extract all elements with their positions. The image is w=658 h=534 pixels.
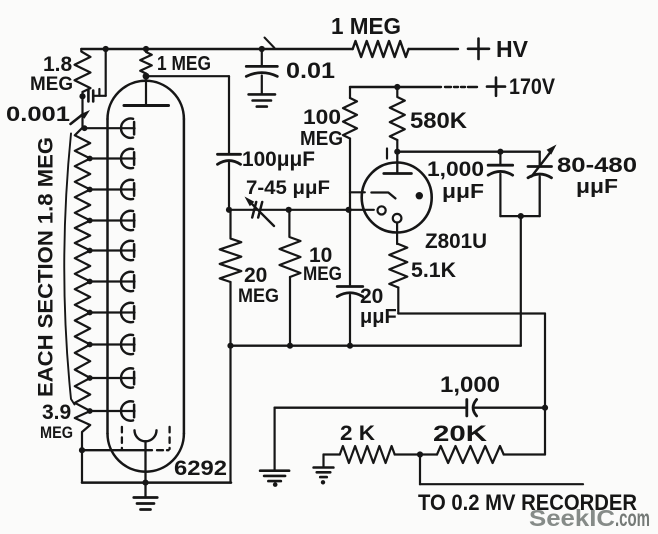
- svg-text:20: 20: [360, 285, 383, 308]
- svg-text:20K: 20K: [433, 421, 487, 446]
- svg-text:0.001: 0.001: [6, 103, 70, 126]
- svg-text:.com: .com: [615, 505, 650, 531]
- svg-text:3.9: 3.9: [42, 401, 71, 424]
- svg-text:MEG: MEG: [30, 74, 73, 95]
- svg-text:1 MEG: 1 MEG: [157, 53, 211, 75]
- svg-text:7-45 μμF: 7-45 μμF: [246, 178, 330, 199]
- svg-text:2 K: 2 K: [340, 422, 375, 445]
- svg-text:580K: 580K: [410, 108, 467, 133]
- svg-text:SeekIC: SeekIC: [529, 505, 615, 531]
- svg-text:Z801U: Z801U: [425, 230, 487, 253]
- svg-text:MEG: MEG: [238, 286, 279, 307]
- svg-text:6292: 6292: [174, 457, 227, 480]
- svg-text:MEG: MEG: [300, 128, 343, 150]
- svg-text:μμF: μμF: [576, 176, 618, 198]
- svg-text:1 MEG: 1 MEG: [331, 13, 401, 39]
- svg-text:EACH SECTION 1.8 MEG: EACH SECTION 1.8 MEG: [35, 137, 58, 397]
- svg-text:MEG: MEG: [303, 264, 342, 285]
- svg-text:MEG: MEG: [40, 423, 73, 442]
- svg-text:100μμF: 100μμF: [242, 148, 315, 171]
- svg-text:1.8: 1.8: [43, 53, 73, 76]
- svg-text:20: 20: [244, 264, 267, 287]
- svg-text:80-480: 80-480: [557, 154, 637, 177]
- svg-text:170V: 170V: [509, 74, 555, 99]
- svg-text:1,000: 1,000: [440, 372, 500, 397]
- svg-text:100: 100: [303, 106, 341, 129]
- svg-text:μμF: μμF: [360, 306, 397, 328]
- svg-text:5.1K: 5.1K: [411, 259, 456, 282]
- svg-text:0.01: 0.01: [286, 58, 335, 83]
- svg-text:μμF: μμF: [442, 181, 484, 203]
- svg-text:HV: HV: [496, 36, 529, 62]
- svg-text:1,000: 1,000: [427, 158, 484, 181]
